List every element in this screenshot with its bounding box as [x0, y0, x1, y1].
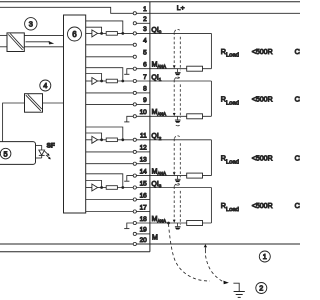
svg-text:RLoad: RLoad: [221, 201, 239, 213]
node terminal 20 circle: [133, 242, 136, 245]
wire dashed equipotential curve from M bus: [206, 256, 223, 282]
DC isolation converter U3: [7, 33, 24, 52]
wire ch2 shield arrow to MANA: [173, 172, 176, 175]
node ch0 junction after resistor: [121, 32, 124, 35]
svg-text:13: 13: [140, 157, 148, 164]
wire ch0 feedback line B: [86, 27, 102, 33]
svg-text:<500R: <500R: [252, 49, 273, 56]
svg-text:MANA: MANA: [152, 216, 167, 224]
ground ch3 shield reference symbol: [175, 223, 181, 230]
resistor ch1 RLoad: [187, 114, 203, 119]
wire ch2 amp input: [86, 139, 92, 141]
wire ch0 MANA return line: [136, 68, 211, 70]
label terminal numbers 1-20: [140, 6, 148, 244]
wire ch2 feedback line A: [86, 127, 123, 140]
wire ch2 shield dashed top arc: [175, 136, 181, 139]
svg-text:MANA: MANA: [152, 62, 167, 70]
svg-text:6: 6: [143, 62, 147, 69]
resistor ch0 RLoad: [187, 66, 203, 71]
node ch0 junction after amp: [100, 32, 103, 35]
wire ch1 amp input: [86, 80, 92, 82]
wire ch1 MANA stub hook: [124, 121, 129, 123]
resistor ch3 RLoad: [187, 221, 203, 226]
wire ch2 resistor to terminal QI2: [117, 139, 133, 141]
wire converter 3 to module upper: [24, 34, 63, 36]
svg-text:<500R: <500R: [252, 203, 273, 210]
node sense terminal circle 2: [133, 55, 136, 58]
ground protective earth: [233, 283, 244, 297]
svg-text:18: 18: [140, 216, 148, 223]
wire ch2 sense line 2: [86, 163, 134, 165]
wire ch0 load loop vertical: [210, 33, 212, 68]
wire ch3 sense line 2: [86, 211, 134, 213]
svg-text:1: 1: [143, 6, 147, 13]
resistor ch3 shunt: [106, 186, 117, 190]
wire converter 3 to module lower: [24, 46, 63, 48]
wire ch3 amp output: [98, 187, 107, 189]
svg-text:QI2: QI2: [151, 133, 161, 141]
op-amp ch1 output driver: [92, 78, 98, 85]
svg-text:20: 20: [140, 237, 148, 244]
svg-text:QI0: QI0: [151, 27, 161, 35]
wire ch1 feedback line B: [86, 74, 102, 82]
op-amp module block U6: [64, 15, 86, 213]
wire ch2 shield dashed right: [179, 143, 181, 177]
wire ch3 MANA return line: [136, 222, 211, 224]
svg-text:14: 14: [140, 168, 148, 175]
node ch1 junction after resistor: [121, 80, 124, 83]
svg-text:SF: SF: [47, 143, 55, 150]
signal-flow arrow from converter 3: [26, 41, 55, 44]
wire ch2 MANA return line: [136, 175, 211, 177]
wire M bus bottom rail: [0, 243, 300, 245]
label circled 2: [256, 283, 267, 294]
wire ch2 load loop vertical: [210, 140, 212, 176]
wire ch0 QI0 line to load: [136, 32, 211, 34]
svg-text:19: 19: [140, 227, 148, 234]
svg-text:3: 3: [143, 26, 147, 33]
resistor ch2 shunt: [106, 138, 117, 142]
DC isolation converter U4: [25, 94, 43, 113]
wire ch0 shield dashed left: [173, 32, 175, 65]
node sense terminal circle: [133, 150, 136, 153]
node terminal 1 circle: [133, 12, 136, 15]
wire ch0 shield dashed top arc: [175, 29, 181, 32]
ground ch0 shield reference symbol: [175, 69, 181, 79]
wire ch3 load loop vertical: [210, 188, 212, 224]
wire converter 4 to module: [43, 102, 64, 104]
wire ch0 shield arrow to MANA: [173, 65, 176, 68]
wire ch0 amp input: [86, 32, 92, 34]
wire ch0 sense line 1: [86, 44, 134, 46]
wire ch2 amp output: [98, 139, 107, 141]
node ch3 shield junction on MANA line: [167, 222, 170, 225]
wire ch1 shield dashed left: [173, 80, 175, 113]
wire ch0 shield dashed right: [179, 37, 181, 71]
wire ch1 sense line 1: [86, 92, 134, 94]
wire ch1 shield dashed top arc: [175, 77, 181, 80]
wire ch3 shield dashed top arc: [175, 183, 181, 186]
node terminal QI1 circle: [133, 79, 136, 82]
wire ch3 QI3 line to load: [136, 187, 211, 189]
wire terminal 2 to bar: [136, 22, 150, 24]
svg-text:5: 5: [4, 149, 8, 158]
wire ch2 shield dashed left: [173, 139, 175, 173]
node ch2 junction after resistor: [121, 138, 124, 141]
svg-text:RLoad: RLoad: [221, 153, 239, 165]
node sense terminal circle: [133, 91, 136, 94]
svg-text:16: 16: [140, 192, 148, 199]
svg-text:CH: CH: [295, 155, 300, 162]
wire ch1 QI1 line to load: [136, 80, 211, 82]
op-amp ch0 output driver: [92, 30, 98, 37]
svg-text:MANA: MANA: [152, 109, 167, 117]
label circled 1: [259, 251, 270, 262]
wire input pair to converter 3 upper: [0, 34, 7, 36]
wire ch3 sense line 1: [86, 199, 134, 201]
svg-text:CH: CH: [295, 49, 300, 56]
svg-text:2: 2: [259, 284, 263, 293]
svg-text:4: 4: [143, 38, 147, 45]
resistor ch0 shunt: [106, 32, 117, 36]
wire ch1 load loop vertical: [210, 81, 212, 116]
diagnostics block U5: [0, 142, 36, 165]
svg-text:<500R: <500R: [252, 155, 273, 162]
label circled 5: [0, 148, 11, 159]
svg-text:17: 17: [140, 204, 148, 211]
svg-text:RLoad: RLoad: [221, 94, 239, 106]
wire internal L+ feed to terminal 1: [0, 7, 133, 13]
wire ch1 amp output: [98, 80, 107, 82]
svg-text:12: 12: [140, 145, 148, 152]
wire ch3 feedback line B: [86, 181, 102, 188]
node terminal QI3 circle: [133, 186, 136, 189]
label circled 4: [40, 80, 51, 91]
op-amp ch3 output driver: [92, 184, 98, 191]
wire ch0 sense line 2: [86, 56, 134, 58]
svg-text:4: 4: [43, 81, 47, 90]
node sense terminal circle 2: [133, 210, 136, 213]
svg-text:9: 9: [143, 97, 147, 104]
svg-text:15: 15: [140, 180, 148, 187]
wire ch2 QI2 line to load: [136, 139, 211, 141]
wire terminal strip vertical bar: [149, 2, 151, 252]
svg-text:MANA: MANA: [152, 168, 167, 176]
node ch2 junction after amp: [100, 138, 103, 141]
node terminal MANA circle: [133, 174, 136, 177]
svg-text:7: 7: [143, 74, 147, 81]
node terminal 19 circle: [133, 232, 136, 235]
wire top frame rail: [0, 1, 300, 3]
node terminal 2 circle: [133, 22, 136, 25]
svg-text:CH: CH: [295, 203, 300, 210]
LED SF indicator: [36, 145, 51, 159]
svg-text:8: 8: [143, 86, 147, 93]
label circled 6: [68, 27, 82, 41]
node terminal MANA circle: [133, 221, 136, 224]
wire ch1 MANA return line: [136, 115, 211, 117]
node ch3 junction after amp: [100, 186, 103, 189]
resistor ch2 RLoad: [187, 173, 203, 178]
svg-text:1: 1: [263, 252, 267, 261]
wire input pair to converter 3 lower: [0, 46, 7, 48]
wire ch0 MANA stub hook: [124, 73, 129, 75]
node terminal QI0 circle: [133, 32, 136, 35]
svg-text:M: M: [152, 235, 158, 242]
svg-text:10: 10: [140, 109, 148, 116]
wire ch2 MANA stub hook: [124, 180, 129, 182]
svg-text:2: 2: [143, 16, 147, 23]
svg-text:QI1: QI1: [151, 74, 161, 82]
node sense terminal circle: [133, 43, 136, 46]
svg-text:RLoad: RLoad: [221, 47, 239, 59]
node terminal QI2 circle: [133, 138, 136, 141]
svg-text:6: 6: [72, 30, 77, 39]
wire ch3 feedback line A: [86, 174, 123, 188]
node terminal MANA circle: [133, 67, 136, 70]
node ch1 junction after amp: [100, 80, 103, 83]
wire ch3 shield dashed left: [173, 186, 175, 219]
wire module bottom edge: [0, 251, 150, 253]
wire M bus arrow tap: [204, 244, 207, 247]
resistor ch1 shunt: [106, 79, 117, 83]
wire ch1 feedback line A: [86, 68, 123, 81]
wire ch3 resistor to terminal QI3: [117, 187, 133, 189]
wire ch1 resistor to terminal QI1: [117, 80, 133, 82]
svg-text:QI3: QI3: [151, 181, 161, 189]
wire ch3 shield dashed right: [179, 191, 181, 225]
svg-text:3: 3: [29, 20, 33, 29]
node sense terminal circle: [133, 198, 136, 201]
wire dashed equipotential curve from ch3 shield: [169, 224, 211, 281]
wire ch1 sense line 2: [86, 103, 134, 105]
wire ch0 amp output: [98, 32, 107, 34]
ground ch2 shield reference symbol: [175, 176, 181, 186]
svg-text:11: 11: [140, 133, 147, 140]
wire L+ supply line from terminal 1 to right edge: [136, 12, 300, 14]
node sense terminal circle 2: [133, 103, 136, 106]
wire converter 4 left lead down to diagnostics: [3, 103, 25, 142]
wire ch0 resistor to terminal QI0: [117, 32, 133, 34]
wire ch0 feedback line A: [86, 21, 123, 34]
svg-text:L+: L+: [177, 5, 185, 12]
label circled 3: [25, 18, 37, 30]
wire ch3 amp input: [86, 187, 92, 189]
node sense terminal circle 2: [133, 162, 136, 165]
wire arrowhead into ground: [223, 281, 229, 285]
wire ch1 shield arrow to MANA: [173, 113, 176, 116]
wire terminal 19 to bar: [136, 233, 150, 235]
wire ch3 MANA stub hook: [124, 228, 129, 230]
wire ch2 sense line 1: [86, 151, 134, 153]
wire ch3 shield arrow to MANA: [173, 220, 176, 223]
svg-text:5: 5: [143, 50, 147, 57]
wire ch2 feedback line B: [86, 133, 102, 140]
ground ch1 shield reference symbol: [175, 116, 181, 126]
node ch3 junction after resistor: [121, 186, 124, 189]
svg-text:CH: CH: [295, 96, 300, 103]
wire ch1 shield dashed right: [179, 84, 181, 118]
svg-text:<500R: <500R: [252, 96, 273, 103]
op-amp ch2 output driver: [92, 136, 98, 143]
node terminal MANA circle: [133, 115, 136, 118]
